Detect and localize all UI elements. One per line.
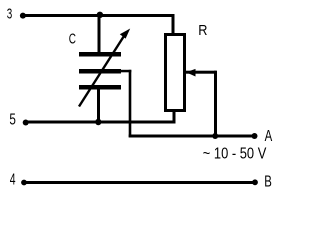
terminal 4 dot — [21, 180, 27, 186]
node: junction of C top lead with top rail — [97, 12, 103, 18]
terminal 3 dot — [20, 13, 26, 19]
capacitor C plate 1 — [79, 52, 121, 57]
wire: top rail from terminal 3 to corner at R top lead — [23, 14, 175, 17]
capacitor C plate 3 — [79, 85, 121, 90]
terminal A dot — [252, 133, 258, 139]
wire: wiper drop down to node on rail A — [214, 71, 217, 138]
wire: C bottom lead — [97, 89, 100, 122]
wire: C top lead — [98, 15, 101, 52]
wire: tap from C plate 2 going right — [121, 70, 131, 73]
terminal 5 dot — [23, 120, 29, 126]
wire: rail from terminal 4 to terminal B — [24, 181, 255, 184]
svg-text:~ 10 - 50 V: ~ 10 - 50 V — [203, 146, 267, 163]
node: junction of C bottom lead with rail 5 — [95, 119, 101, 125]
svg-text:A: A — [265, 128, 273, 145]
wiper arrow of R (potentiometer tap) — [186, 69, 217, 77]
svg-text:R: R — [198, 22, 207, 39]
wire: tap from C plate 2 going down to rail A — [129, 70, 132, 137]
resistor R body — [166, 35, 185, 111]
svg-text:B: B — [264, 174, 272, 191]
wire: rail A — [129, 135, 255, 138]
wire: corner drop from top rail to R top — [172, 14, 175, 35]
wire: R bottom lead — [173, 110, 176, 124]
terminal B dot — [252, 179, 258, 185]
capacitor C plate 2 — [79, 69, 121, 74]
node: junction of wiper drop with rail A — [212, 133, 218, 139]
svg-text:5: 5 — [9, 112, 16, 129]
svg-text:C: C — [69, 30, 76, 47]
wire: rail from terminal 5 to R bottom lead — [26, 121, 175, 124]
capacitor C variable adjustment arrow — [79, 29, 130, 107]
svg-text:3: 3 — [7, 6, 13, 23]
svg-text:4: 4 — [10, 172, 16, 189]
